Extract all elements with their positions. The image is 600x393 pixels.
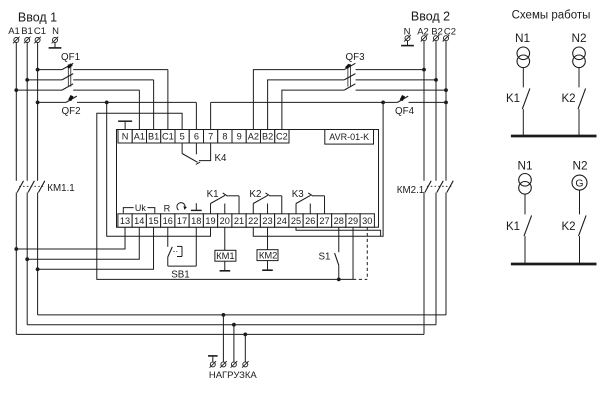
svg-text:18: 18 — [191, 216, 201, 226]
scheme2 wire N2 — [579, 190, 581, 214]
svg-text:K2: K2 — [561, 93, 575, 105]
wire: terminal 25 to wrap wire — [296, 227, 381, 236]
wire: load tap A down — [244, 334, 246, 361]
wire: phase B2 feeder — [435, 41, 437, 181]
scheme1 wire N1 — [522, 68, 524, 88]
wire: phase A1 feeder — [15, 43, 17, 181]
terminal circle B1 (input 1) — [24, 37, 31, 44]
junction: 13-wire / A1 — [14, 247, 18, 251]
svg-text:17: 17 — [177, 216, 187, 226]
junction: C2 / QF3 pole3 — [444, 88, 448, 92]
relay contact K2 (terminals 22-24) — [252, 204, 254, 214]
terminal circle N (input 2) — [404, 35, 411, 42]
breaker QF3 latch flag — [345, 64, 351, 69]
load bus phase B — [27, 324, 436, 326]
wire: QF1 pole1 to AVR terminal C1 — [167, 70, 169, 130]
svg-text:НАГРУЗКА: НАГРУЗКА — [209, 370, 258, 381]
wire: terminal 23 to KM2 coil — [267, 227, 269, 250]
contactor contacts KM2.1 — [425, 181, 431, 193]
wire: terminal 13 to phase A1 — [16, 227, 125, 249]
wire: A2 below KM2.1 to bus — [423, 193, 425, 335]
junction: S1 / loop bus — [337, 278, 341, 282]
svg-text:27: 27 — [319, 216, 329, 226]
junction: 15-wire / C1 — [36, 267, 40, 271]
contactor coil KM1 — [215, 250, 236, 261]
junction: load tap phase B — [232, 323, 236, 327]
contactor coil KM2 — [257, 250, 278, 261]
svg-text:N2: N2 — [571, 31, 586, 45]
junction: C1 / QF1 pole1 tap — [36, 68, 40, 72]
svg-text:Uk: Uk — [135, 203, 146, 213]
wire: terminal 20 to KM1 coil — [224, 227, 226, 250]
scheme1 transformer N2 — [573, 47, 586, 60]
breaker QF1 latch flag — [67, 63, 73, 68]
wire: QF2 output down to AVR terminal 6 — [195, 102, 197, 129]
svg-text:7: 7 — [208, 132, 213, 142]
junction: QF4 line / wrap wire to 22 — [381, 101, 385, 105]
svg-text:QF1: QF1 — [61, 52, 80, 63]
breaker QF2 switch — [38, 101, 66, 103]
Uk measurement bracket (terminals 13-15) — [123, 208, 133, 214]
junction: load tap phase C — [222, 313, 226, 317]
wire: QF1 pole3 to AVR terminal A1 — [138, 90, 140, 129]
svg-text:20: 20 — [220, 216, 230, 226]
svg-text:K2: K2 — [249, 189, 261, 200]
svg-text:Ввод 1: Ввод 1 — [18, 11, 57, 25]
KM1 coil ground bar — [224, 261, 226, 270]
wire: phase C2 feeder — [445, 41, 447, 181]
ground symbol above terminal 18 — [195, 203, 197, 210]
svg-text:K3: K3 — [292, 189, 305, 200]
svg-text:B2: B2 — [262, 132, 273, 142]
svg-text:R: R — [164, 203, 171, 213]
wire: phase C1 feeder — [37, 43, 39, 181]
svg-text:9: 9 — [237, 132, 242, 142]
svg-text:A1: A1 — [8, 26, 20, 37]
svg-text:K2: K2 — [561, 221, 575, 233]
svg-text:КМ1: КМ1 — [216, 250, 235, 261]
wire: B2 below KM2.1 to bus — [435, 193, 437, 325]
terminal circle A1 (input 1) — [13, 37, 20, 44]
svg-text:13: 13 — [120, 216, 130, 226]
junction: QF2 output / wrap wire to 19 — [105, 101, 109, 105]
wire: load tap B down — [233, 325, 235, 362]
wire: AVR terminal 7 up to QF4 line — [210, 102, 212, 129]
svg-text:A1: A1 — [134, 132, 145, 142]
wire: terminal 14 to phase B1 — [27, 227, 139, 259]
AVR bottom terminal row (13..30) — [118, 214, 132, 227]
svg-text:6: 6 — [194, 132, 199, 142]
load bus phase A — [16, 333, 424, 335]
relay contact K4 — [181, 143, 183, 154]
wire: dashed link terminal 30 — [366, 227, 368, 279]
scheme2 transformer N1 — [519, 174, 532, 187]
breaker QF4 switch — [211, 101, 398, 103]
svg-text:16: 16 — [163, 216, 173, 226]
load neutral bar symbol — [208, 355, 218, 357]
junction: A1 / QF1 pole3 tap — [14, 88, 18, 92]
breaker QF3 mechanical link — [347, 64, 349, 86]
KM2 coil ground bar — [267, 261, 269, 270]
svg-text:29: 29 — [348, 216, 358, 226]
wire: C1 below KM1.1 to bus — [37, 193, 39, 315]
svg-text:N1: N1 — [515, 31, 530, 45]
wire: A1 below KM1.1 to bus — [15, 193, 17, 335]
AVR-01-K device outline — [117, 130, 379, 228]
wire: load tap C down — [222, 315, 224, 362]
svg-text:B1: B1 — [148, 132, 159, 142]
wire: AVR terminal 5 loop (to S1 bus) — [97, 113, 353, 279]
wire: C2 below KM2.1 to bus — [445, 193, 447, 315]
scheme1 wire N2 — [578, 68, 580, 88]
svg-text:КМ2: КМ2 — [259, 250, 278, 261]
terminal circle N (input 1) — [52, 37, 59, 44]
svg-text:23: 23 — [262, 216, 272, 226]
junction: C2 / QF4 — [444, 101, 448, 105]
svg-text:K1: K1 — [506, 221, 520, 233]
terminal circle B2 (input 2) — [433, 35, 440, 42]
wire: wrap (QF2 output) to terminal 19 — [107, 102, 211, 236]
scheme2 wire N1 — [524, 194, 526, 214]
svg-text:C1: C1 — [162, 132, 174, 142]
svg-text:B1: B1 — [21, 26, 33, 37]
load terminal circle N — [210, 361, 217, 368]
junction: B2 / QF3 pole2 — [434, 78, 438, 82]
svg-text:5: 5 — [180, 132, 185, 142]
svg-text:C2: C2 — [276, 132, 288, 142]
scheme2 common bus bar — [511, 263, 597, 266]
breaker QF3 pole 3 (C2) — [282, 90, 344, 129]
svg-text:15: 15 — [148, 216, 158, 226]
svg-text:N2: N2 — [572, 159, 587, 173]
switch S1 — [338, 227, 340, 252]
svg-text:24: 24 — [277, 216, 287, 226]
junction: 14-wire / B1 — [25, 257, 29, 261]
relay contact K1 (terminals 19-21) — [210, 204, 212, 214]
svg-text:Схемы работы: Схемы работы — [512, 10, 591, 22]
svg-text:N: N — [52, 26, 59, 37]
contactor contacts KM1.1 — [17, 181, 23, 193]
junction: C1 / QF2 tap — [36, 101, 40, 105]
push button SB1 — [167, 227, 169, 247]
load terminal circle L1 — [220, 361, 227, 368]
svg-text:22: 22 — [248, 216, 258, 226]
svg-text:КМ2.1: КМ2.1 — [397, 185, 425, 196]
load terminal circle L3 — [242, 361, 249, 368]
svg-text:SB1: SB1 — [171, 270, 190, 281]
scheme1 common bus bar — [511, 135, 597, 138]
svg-text:K1: K1 — [207, 189, 219, 200]
neutral bar symbol above AVR terminal N — [124, 121, 126, 129]
wire: wrap (QF4 line) to terminal 22 — [253, 102, 383, 236]
breaker QF3 pole 2 (B2) — [268, 80, 345, 130]
svg-text:K1: K1 — [506, 93, 520, 105]
svg-text:8: 8 — [222, 132, 227, 142]
relay contact K3 (terminals 25-27) — [295, 204, 297, 214]
terminal circle A2 (input 2) — [421, 35, 428, 42]
svg-text:S1: S1 — [319, 252, 331, 263]
svg-text:AVR-01-K: AVR-01-K — [329, 132, 369, 142]
wire: phase B1 feeder — [26, 43, 28, 181]
svg-text:Ввод 2: Ввод 2 — [411, 10, 450, 24]
load terminal circle L2 — [231, 361, 238, 368]
breaker QF1 pole 1 (C1) — [38, 69, 62, 71]
breaker QF1 mechanical link — [67, 64, 69, 86]
svg-text:25: 25 — [291, 216, 301, 226]
breaker QF1 pole 2 (B1) — [27, 79, 62, 81]
junction: A2 / QF3 pole1 — [422, 68, 426, 72]
reset (rotation) symbol above terminal 17 — [177, 203, 185, 210]
svg-text:14: 14 — [134, 216, 144, 226]
wire: terminal 29 to loop bus — [352, 227, 354, 279]
scheme1 transformer N1 — [517, 47, 530, 60]
svg-text:K4: K4 — [215, 153, 228, 164]
svg-text:QF2: QF2 — [61, 106, 80, 117]
wire: terminal 15 to phase C1 — [38, 227, 154, 269]
svg-text:N: N — [122, 132, 129, 142]
junction: load tap phase A — [243, 333, 247, 337]
AVR top terminal row (N A1 B1 C1 5 6 7 8 9 A2 B2 C2) — [118, 130, 132, 144]
terminal circle C2 (input 2) — [443, 35, 450, 42]
breaker QF1 pole 3 (A1) — [16, 89, 62, 91]
svg-text:G: G — [575, 178, 583, 190]
wire: B1 below KM1.1 to bus — [26, 193, 28, 325]
breaker QF3 pole 1 (A2) — [253, 70, 344, 130]
junction: B1 / QF1 pole2 tap — [25, 78, 29, 82]
neutral bar symbol (input 1 N) — [54, 43, 56, 48]
svg-text:19: 19 — [205, 216, 215, 226]
svg-text:C1: C1 — [34, 26, 46, 37]
wire: phase A2 feeder — [423, 41, 425, 181]
AVR type label box — [325, 130, 374, 145]
svg-text:QF3: QF3 — [345, 52, 365, 63]
svg-text:QF4: QF4 — [395, 106, 415, 117]
svg-text:30: 30 — [362, 216, 372, 226]
load bus phase C — [38, 314, 446, 316]
terminal circle C1 (input 1) — [34, 37, 41, 44]
svg-text:N1: N1 — [517, 159, 532, 173]
svg-text:26: 26 — [305, 216, 315, 226]
svg-text:28: 28 — [334, 216, 344, 226]
svg-text:КМ1.1: КМ1.1 — [47, 183, 75, 194]
neutral bar symbol (input 2 N) — [407, 41, 409, 45]
wire: QF1 pole2 to AVR terminal B1 — [153, 80, 155, 130]
svg-text:A2: A2 — [248, 132, 259, 142]
svg-text:21: 21 — [234, 216, 244, 226]
scheme2 generator N2 — [572, 175, 587, 190]
